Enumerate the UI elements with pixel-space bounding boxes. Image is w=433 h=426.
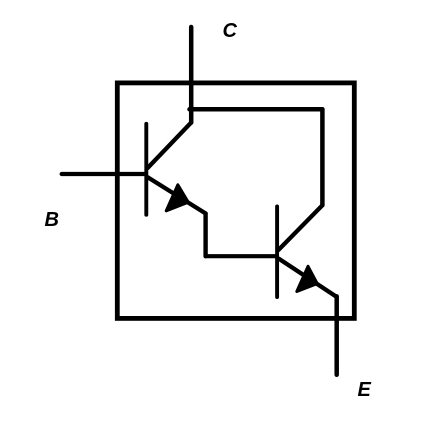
transistor Q2 collector lead (diagonal)	[278, 205, 322, 250]
svg-text:C: C	[223, 20, 238, 42]
transistor Q2 emitter arrow	[297, 266, 317, 291]
wire: collector terminal (top)	[189, 27, 194, 123]
device outline box	[117, 83, 354, 319]
wire: Q1 emitter to Q2 base (vertical)	[203, 213, 207, 256]
transistor Q2 emitter lead (diagonal)	[279, 259, 336, 297]
wire: Q2 collector branch (vertical)	[320, 109, 325, 205]
wire: base terminal B	[62, 172, 146, 176]
svg-text:B: B	[45, 209, 59, 231]
transistor Q1 emitter lead (diagonal)	[148, 177, 206, 213]
transistor Q1 base bar	[144, 124, 148, 215]
transistor Q1 collector lead (diagonal)	[148, 123, 192, 169]
transistor Q2 base bar	[275, 206, 279, 297]
wire: Q1 emitter to Q2 base (horizontal)	[206, 254, 276, 258]
wire: emitter terminal (bottom)	[334, 296, 339, 374]
transistor Q1 emitter arrow	[166, 185, 188, 211]
svg-text:E: E	[358, 379, 372, 401]
wire: collector node to Q2 collector branch (horizontal)	[190, 107, 323, 112]
